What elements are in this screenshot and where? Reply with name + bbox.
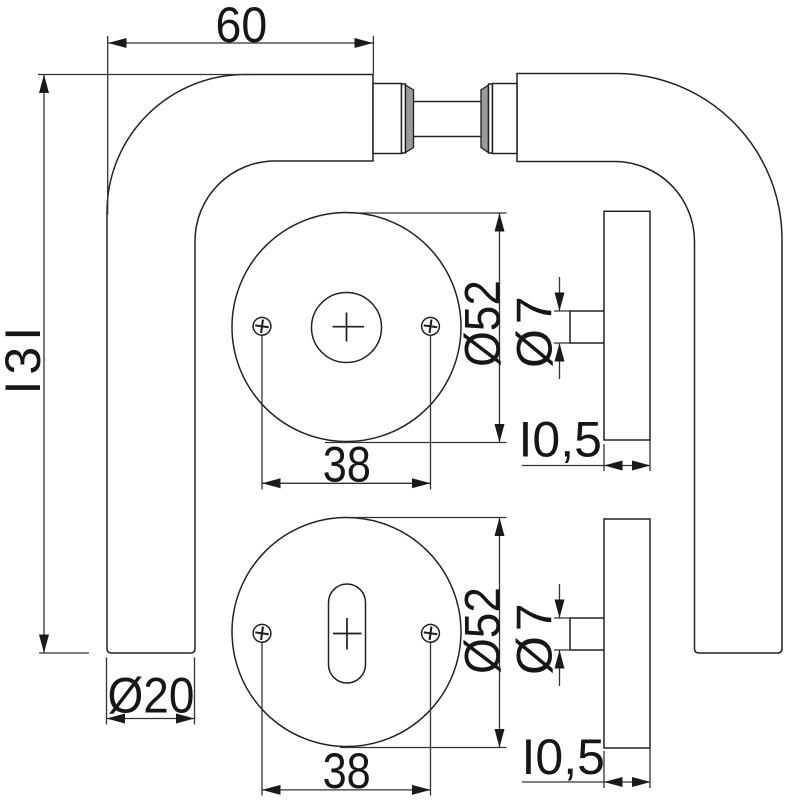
dim 38 bottom arrow left: [262, 785, 281, 795]
rosette side view bottom rectangle: [604, 519, 650, 748]
dim O7 bottom ticks: [554, 618, 570, 650]
rosette top inner boss circle: [312, 293, 382, 363]
dim O52 bottom arrow down: [495, 729, 505, 748]
screw bottom-right: [420, 623, 440, 643]
dim 10,5 top line: [522, 465, 651, 467]
dim 38 bottom ext lines: [262, 643, 431, 796]
dim 60 line: [108, 42, 373, 44]
dim 60 arrow left: [108, 38, 127, 48]
dim O7 top arrow up: [555, 343, 565, 362]
dim O7 top arrow down: [555, 293, 565, 312]
dim 131 ext top: [38, 74, 250, 76]
svg-text:Ø7: Ø7: [507, 291, 563, 368]
lever handle side view (right tube): [517, 74, 782, 654]
screw stub side bottom: [570, 618, 604, 650]
keyhole cross: [333, 618, 362, 650]
rosette top spindle cross: [333, 313, 365, 342]
spindle bar: [414, 102, 482, 137]
rosette side view top rectangle: [604, 211, 650, 440]
dim 60 ext right: [372, 36, 374, 75]
screw stub side top: [570, 311, 604, 343]
svg-text:38: 38: [323, 437, 371, 493]
dim 10,5 bottom ext lines: [604, 748, 650, 788]
collar bevel band right (grey): [481, 85, 489, 153]
lever handle front view (left L-shaped tube): [107, 75, 373, 654]
dim 10,5 top ext lines: [604, 440, 650, 471]
rosette top (front view circle): [232, 213, 461, 442]
screw top-right: [420, 316, 440, 336]
dim 38 top arrow left: [262, 478, 281, 488]
dim O20 ext lines: [107, 658, 195, 725]
dim O20 arrow left: [107, 714, 126, 724]
screw top-left: [252, 316, 272, 336]
dim O20 line: [107, 718, 195, 720]
svg-text:I3I: I3I: [0, 321, 51, 395]
dim 60 ext left: [107, 36, 109, 214]
dim 10,5 bottom arrow right: [632, 777, 651, 787]
svg-text:Ø7: Ø7: [507, 598, 563, 675]
dim O52 top arrow down: [495, 424, 505, 443]
dim 10,5 top arrow left: [604, 461, 623, 471]
dim O7 top ticks: [554, 311, 570, 343]
dim 38 bottom arrow right: [412, 785, 431, 795]
dim 131 arrow bottom: [39, 635, 49, 654]
neck step cylinder left: [373, 84, 402, 154]
dim 131 line: [43, 75, 45, 654]
dim 38 top ext lines: [262, 336, 431, 490]
dim O52 top arrow up: [495, 213, 505, 232]
dim O52 top tangent lines: [325, 213, 507, 443]
dim O52 top line: [499, 213, 501, 443]
dim O52 bottom line: [499, 518, 501, 748]
svg-text:I0,5: I0,5: [522, 729, 605, 785]
collar thin ring right: [489, 84, 493, 153]
rosette bottom (front view circle): [232, 518, 461, 747]
dim 131 ext bottom: [39, 652, 89, 654]
svg-text:Ø20: Ø20: [108, 669, 195, 724]
dim 38 bottom line: [262, 789, 431, 791]
dim O52 bottom arrow up: [495, 518, 505, 537]
collar thin ring left: [402, 84, 406, 153]
dim O7 bottom arrow up: [555, 650, 565, 669]
keyhole slot: [329, 584, 366, 683]
screw bottom-left: [252, 623, 272, 643]
dim 131 arrow top: [39, 75, 49, 94]
dim O7 top leader lines: [559, 277, 561, 379]
collar bevel band left (grey): [406, 85, 414, 153]
dim O52 bottom tangent lines: [340, 518, 507, 748]
dim 38 top arrow right: [412, 478, 431, 488]
svg-text:60: 60: [216, 0, 268, 53]
dim 60 arrow right: [355, 38, 374, 48]
svg-text:38: 38: [323, 743, 371, 799]
dim 10,5 top arrow right: [632, 461, 651, 471]
dim 10,5 bottom arrow left: [604, 777, 623, 787]
neck step cylinder right: [493, 84, 518, 154]
dim O7 bottom leader lines: [559, 584, 561, 686]
dim 38 top line: [262, 482, 431, 484]
svg-text:Ø52: Ø52: [456, 280, 511, 367]
dim O7 bottom arrow down: [555, 600, 565, 619]
svg-text:I0,5: I0,5: [519, 412, 602, 468]
dim 10,5 bottom line: [522, 781, 651, 783]
dim O20 arrow right: [176, 714, 195, 724]
svg-text:Ø52: Ø52: [456, 587, 511, 674]
